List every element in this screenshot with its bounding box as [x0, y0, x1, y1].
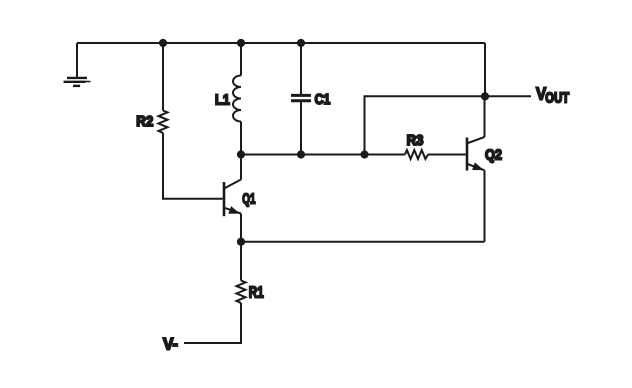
svg-text:V-: V-	[163, 335, 178, 353]
node top-R2	[159, 39, 167, 47]
svg-text:R2: R2	[136, 113, 153, 130]
transistor Q2	[467, 96, 502, 241]
resistor R1	[237, 242, 264, 303]
svg-text:OUT: OUT	[545, 89, 569, 106]
node mid-L1	[237, 150, 245, 158]
wire top rail down to Vout node	[484, 43, 486, 96]
node top-C1	[297, 39, 305, 47]
node top-L1	[237, 39, 245, 47]
resistor R3	[405, 131, 428, 159]
node Vout	[481, 92, 489, 100]
node mid-C1	[297, 150, 305, 158]
wire feedback from Vout to mid rail	[365, 96, 486, 154]
inductor L1	[215, 43, 241, 155]
node bottom-R1	[237, 238, 245, 246]
svg-text:R1: R1	[249, 283, 264, 301]
wire R3 to Q2 base	[428, 154, 466, 156]
svg-text:Q2: Q2	[485, 145, 502, 162]
wire R1 to V-	[184, 303, 241, 343]
ground	[64, 43, 91, 86]
transistor Q1	[224, 155, 255, 242]
svg-text:R3: R3	[407, 131, 424, 148]
wire top rail	[77, 42, 485, 44]
node mid-feedback	[360, 150, 368, 158]
capacitor C1	[291, 43, 331, 155]
svg-text:L1: L1	[215, 91, 230, 108]
label VOUT	[536, 84, 569, 106]
svg-text:Q1: Q1	[242, 190, 255, 207]
resistor R2	[136, 43, 167, 133]
wire bottom rail	[241, 241, 485, 243]
wire mid rail	[241, 154, 405, 156]
wire Vout stub	[485, 95, 531, 97]
svg-text:C1: C1	[315, 91, 331, 107]
wire R2 to Q1 base	[163, 133, 223, 199]
